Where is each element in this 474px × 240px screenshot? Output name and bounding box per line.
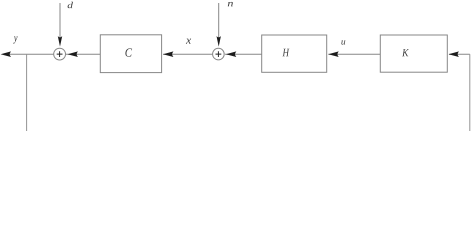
wire: from block H to S2 bbox=[225, 53, 262, 55]
arrowhead into S2 from H bbox=[226, 51, 236, 57]
arrowhead of d into S1 bbox=[58, 36, 62, 47]
wire: noise n input line bbox=[218, 3, 220, 40]
wire: feedback into K from right bbox=[449, 53, 470, 55]
label K bbox=[402, 49, 409, 56]
arrowhead into S1 from C bbox=[68, 51, 78, 57]
block K bbox=[380, 35, 447, 72]
label C bbox=[125, 48, 132, 56]
wire: feedback tap going down off-page bbox=[26, 54, 28, 131]
plus sign of S2 bbox=[216, 51, 222, 57]
wire: from block K to block H bbox=[328, 53, 380, 55]
wire: from S1 to block C bbox=[66, 53, 100, 55]
label y bbox=[13, 36, 17, 43]
arrowhead into H bbox=[328, 51, 338, 57]
block C bbox=[100, 35, 161, 73]
wire: feedback rising line at far right bbox=[469, 54, 471, 131]
wire: from S2 to block C bbox=[163, 53, 213, 55]
arrowhead into K bbox=[449, 51, 459, 57]
summing junction S2 bbox=[213, 48, 225, 60]
summing junction S1 bbox=[54, 48, 66, 60]
arrowhead on output y bbox=[1, 51, 11, 57]
block H bbox=[262, 35, 327, 72]
wire: disturbance d input line bbox=[59, 3, 61, 40]
arrowhead of n into S2 bbox=[217, 36, 221, 47]
label u bbox=[341, 40, 345, 44]
label x bbox=[186, 39, 191, 44]
label H bbox=[282, 49, 289, 57]
label n bbox=[228, 2, 233, 6]
label d bbox=[68, 2, 73, 8]
wire: output y from summing junction S1 to left edge bbox=[10, 53, 54, 55]
plus sign of S1 bbox=[57, 51, 63, 57]
arrowhead into C bbox=[163, 51, 173, 57]
